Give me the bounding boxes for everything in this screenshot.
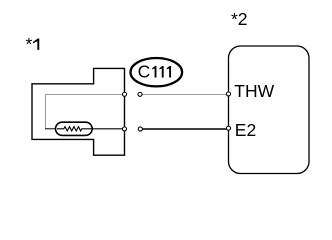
svg-text:C: C	[138, 62, 151, 82]
svg-text:*2: *2	[231, 9, 248, 29]
svg-text:THW: THW	[234, 81, 274, 101]
svg-text:*: *	[26, 34, 33, 54]
svg-text:E2: E2	[235, 120, 256, 140]
